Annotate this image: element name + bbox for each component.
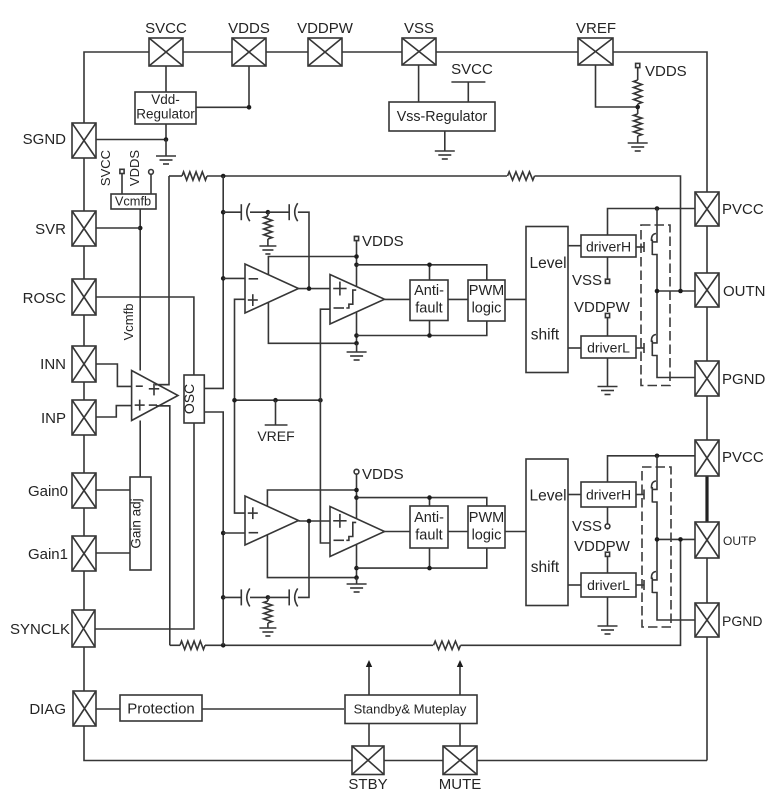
svg-text:SVCC: SVCC <box>451 61 493 78</box>
wire ch2 rail mid <box>205 644 433 646</box>
wire ch1 rail left <box>169 175 182 177</box>
pin OUTN <box>695 273 719 307</box>
pin SVR <box>72 211 96 246</box>
block Gain adj U4 <box>130 477 151 570</box>
wire ch1 antifault top stub <box>429 265 431 280</box>
wire ch1 integrator out <box>299 288 331 290</box>
wire driverH2 gate lead <box>636 494 644 496</box>
wire DIAG bottom rail <box>84 726 352 761</box>
wire Gain1 to Gain adj <box>96 552 130 554</box>
wire ch1 plus input <box>235 299 246 513</box>
block Protection U21 <box>120 695 202 721</box>
resistor ch2 cap mid <box>264 601 272 623</box>
svg-text:INN: INN <box>40 356 66 373</box>
svg-text:SYNCLK: SYNCLK <box>10 621 70 638</box>
ground driverL1 <box>598 387 618 395</box>
wire ch2 gnd stem <box>356 578 358 584</box>
wire ch1 node down <box>222 176 224 278</box>
junction ch1 drain node <box>655 206 660 211</box>
wire Gain0-Gain1 <box>83 508 85 536</box>
wire VREF tap bar <box>265 424 288 426</box>
junction ch1 out node <box>307 286 312 291</box>
wire Protection to Standby <box>202 708 344 710</box>
transistor ch1 high-side <box>644 209 657 292</box>
svg-text:STBY: STBY <box>348 776 387 793</box>
block Anti-fault ch2 U16 <box>410 506 448 548</box>
mosfet body ch1 dashed box <box>641 225 670 386</box>
wire ROSC to OSC <box>96 297 194 375</box>
svg-text:Vcmfb: Vcmfb <box>121 304 136 341</box>
pin VDDPW <box>308 38 342 66</box>
wire PVCC1-OUTN <box>706 226 708 273</box>
wire MUTE to right column <box>477 760 707 762</box>
svg-text:PWM: PWM <box>469 510 504 526</box>
pin SVCC <box>149 38 183 66</box>
wire level1 to driverH1 <box>568 245 581 247</box>
block Standby Muteplay U22 <box>345 695 477 724</box>
junction ch1 vdd b <box>354 263 359 268</box>
junction ch1 antifault top <box>427 263 432 268</box>
junction divider node <box>635 105 640 110</box>
svg-text:VDDS: VDDS <box>645 63 687 80</box>
ground ch1 comparator <box>347 352 367 360</box>
wire SGND-SVR <box>83 158 85 211</box>
pin SGND <box>72 123 96 158</box>
svg-text:Level: Level <box>529 255 566 272</box>
arrow standby up left <box>366 660 372 695</box>
arrow standby up right <box>457 660 463 695</box>
svg-text:VREF: VREF <box>257 428 294 444</box>
wire VDDS to R1 <box>637 68 639 80</box>
block PWM logic ch2 U17 <box>468 506 505 548</box>
wire VDDPW to driverL2 <box>607 557 609 573</box>
wire ch1 antifault-pwm <box>448 298 468 300</box>
wire driverH1 VSS stub <box>607 257 609 279</box>
junction OUTP b <box>678 537 683 542</box>
wire node to R2 <box>637 110 639 114</box>
junction ch2 vdd b <box>354 495 359 500</box>
svg-text:Protection: Protection <box>127 701 195 718</box>
svg-text:OSC: OSC <box>181 384 197 414</box>
wire PGND2 to bottom rail <box>706 637 708 761</box>
pin SYNCLK <box>72 610 95 647</box>
wire ch1 rail right to OUTN <box>535 176 681 291</box>
pin PVCC ch1 <box>695 192 719 226</box>
wire OUTN rail <box>657 290 695 292</box>
op-amp ch2 integrator U9 <box>245 496 299 545</box>
svg-text:Regulator: Regulator <box>136 107 195 122</box>
wire Standby to MUTE <box>459 724 461 747</box>
svg-text:SGND: SGND <box>23 131 67 148</box>
terminal VDDPW ch1 <box>605 313 609 317</box>
svg-text:SVCC: SVCC <box>98 150 113 186</box>
svg-text:logic: logic <box>472 301 502 317</box>
junction VDDS-VddReg corner <box>247 105 252 110</box>
block driverH ch1 U14 <box>581 235 636 257</box>
wire ground stem VddReg <box>165 140 167 157</box>
junction ch2 rail node <box>221 643 226 648</box>
pin DIAG <box>73 691 96 726</box>
svg-text:VDDPW: VDDPW <box>574 299 631 316</box>
ground Vdd-Regulator <box>156 156 176 164</box>
wire OSC out upper <box>204 278 223 388</box>
svg-text:PVCC: PVCC <box>722 449 764 466</box>
wire ch1 antifault btm stub <box>429 320 431 336</box>
svg-text:VDDPW: VDDPW <box>297 20 354 37</box>
wire ch1 comparator minus <box>320 309 330 400</box>
junction SGND node <box>164 137 169 142</box>
block driverL ch2 U20 <box>581 573 636 597</box>
block OSC U5 <box>184 375 204 423</box>
svg-text:PWM: PWM <box>469 283 504 299</box>
wire VSS to VREF <box>436 51 578 53</box>
wire DIAG to Protection <box>96 708 120 710</box>
wire VDDS ch1 stem <box>356 241 358 343</box>
wire Vss-Regulator ground stem <box>444 131 446 151</box>
junction ch2 integrator input <box>221 531 226 536</box>
wire ch2 bottom logic rail <box>357 548 487 568</box>
wire ch1 comparator out <box>385 298 411 300</box>
resistor ch1 feedback <box>508 172 535 180</box>
wire ch2 antifault top stub <box>429 498 431 506</box>
svg-text:VSS: VSS <box>572 518 602 535</box>
wire ch2 antifault-pwm <box>448 531 468 533</box>
wire OUTP rail <box>657 538 695 540</box>
pin Gain0 <box>72 473 96 508</box>
wire ch1 cap mid resistor btm <box>267 239 269 246</box>
wire SVCC to VDDS <box>183 51 232 53</box>
svg-text:VDDS: VDDS <box>228 20 270 37</box>
wire Vcmfb down to input amp <box>139 209 141 371</box>
resistor divider lower <box>634 114 642 136</box>
svg-text:VDDS: VDDS <box>362 466 404 483</box>
pin PVCC ch2 <box>695 440 719 476</box>
block Vcmfb U3 <box>111 194 156 209</box>
wire ch1 rail mid <box>207 175 507 177</box>
terminal VDDS Vcmfb <box>149 170 154 175</box>
wire VDDS term to Vcmfb <box>150 174 152 194</box>
junction ch2 antifault btm <box>427 566 432 571</box>
pin PGND ch2 <box>695 603 719 637</box>
svg-text:fault: fault <box>415 528 442 544</box>
pin ROSC <box>72 279 96 315</box>
svg-text:Gain0: Gain0 <box>28 483 68 500</box>
wire level2 to driverH2 <box>568 494 581 496</box>
junction ch2 gnd b <box>354 575 359 580</box>
wire top rail SVCC left to SGND corner <box>84 52 149 123</box>
wire driverL2 gate lead <box>636 584 644 586</box>
wire ch2 cap chain a <box>223 596 241 598</box>
junction ch1 vdd a <box>354 254 359 259</box>
wire INP to amp <box>96 406 132 417</box>
wire driverL1 gnd stem <box>607 358 609 387</box>
block Vss-Regulator U2 <box>389 102 495 131</box>
wire ch1 cap mid resistor top <box>267 212 269 216</box>
wire ch2 cap chain d <box>298 521 309 597</box>
junction ch1 cap tap <box>221 210 226 215</box>
svg-text:MUTE: MUTE <box>439 776 482 793</box>
comparator ch2 U10 <box>330 507 385 557</box>
wire OUTN-PGND1 <box>706 307 708 361</box>
transistor ch2 high-side <box>644 456 657 540</box>
wire PGND1-PVCC2 <box>706 396 708 440</box>
op-amp ch1 integrator U7 <box>245 264 299 313</box>
wire ch2 comparator minus <box>320 400 330 543</box>
junction VREF rail right <box>318 398 323 403</box>
capacitor ch1 fb right <box>289 203 298 221</box>
junction ch1 cap mid <box>266 210 271 215</box>
ground ch1 cap mid <box>259 246 276 254</box>
op-amp input stage U6 <box>132 371 178 421</box>
comparator ch1 U8 <box>330 275 385 325</box>
wire ch1 bottom logic rail <box>357 321 487 336</box>
wire Gain1-SYNCLK <box>83 571 85 610</box>
terminal VSS ch2 <box>605 524 610 529</box>
transistor ch2 low-side <box>644 539 695 620</box>
pin STBY <box>352 746 384 775</box>
wire ch1 top logic rail <box>357 265 487 280</box>
svg-text:Vdd-: Vdd- <box>151 92 180 107</box>
wire SVR-ROSC <box>83 246 85 279</box>
wire SYNCLK-DIAG <box>83 647 85 691</box>
svg-text:SVR: SVR <box>35 221 66 238</box>
wire driverL2 gnd stem <box>607 597 609 626</box>
svg-text:driverL: driverL <box>587 340 630 356</box>
wire ch2 pwm-level <box>505 531 526 533</box>
wire driverH1 top to PVCC <box>608 209 696 236</box>
wire ch1 gnd stem <box>356 343 358 352</box>
junction SVR-Vcmfb <box>138 226 143 231</box>
wire PVCC2-OUTP thick <box>706 476 708 522</box>
wire SVCC tap stem <box>467 82 469 102</box>
svg-text:INP: INP <box>41 410 66 427</box>
svg-text:logic: logic <box>472 528 502 544</box>
pin INN <box>72 346 96 382</box>
svg-text:SVCC: SVCC <box>145 20 187 37</box>
junction ch1 integrator input <box>221 276 226 281</box>
capacitor ch2 fb left <box>241 588 250 606</box>
wire ch2 cap mid resistor top <box>267 597 269 601</box>
wire ch2 comparator out <box>385 531 411 533</box>
wire ch2 integrator out <box>299 520 331 522</box>
svg-text:Vcmfb: Vcmfb <box>115 194 151 209</box>
svg-text:PGND: PGND <box>722 371 766 388</box>
wire level2 to driverL2 <box>568 584 581 586</box>
svg-text:OUTN: OUTN <box>723 283 766 300</box>
pin MUTE <box>443 746 477 775</box>
pin OUTP <box>695 522 719 558</box>
resistor ch1 input <box>182 172 207 180</box>
junction ch2 gnd a <box>354 566 359 571</box>
pin VSS <box>402 38 436 65</box>
junction ch1 gnd a <box>354 333 359 338</box>
svg-text:Vss-Regulator: Vss-Regulator <box>397 109 488 125</box>
ground ch2 cap mid <box>259 628 276 636</box>
terminal VSS ch1 <box>605 279 609 283</box>
wire SVR to Vcmfb line <box>96 227 140 229</box>
wire INN to amp <box>96 364 132 386</box>
wire SVCC term to Vcmfb <box>121 174 123 194</box>
wire VREF to right column <box>613 52 707 192</box>
svg-text:OUTP: OUTP <box>723 534 756 548</box>
wire ch2 cap chain c <box>268 596 289 598</box>
junction ch1 antifault btm <box>427 333 432 338</box>
terminal VDDPW ch2 <box>605 552 609 556</box>
wire INN-INP <box>83 382 85 400</box>
svg-text:Standby& Muteplay: Standby& Muteplay <box>354 702 467 717</box>
svg-text:Gain adj: Gain adj <box>129 498 144 548</box>
wire STBY to MUTE <box>384 760 443 762</box>
mosfet body ch2 dashed box <box>642 467 671 627</box>
svg-text:VSS: VSS <box>404 20 434 37</box>
wire VREF pin to divider <box>596 65 638 107</box>
junction ch2 antifault top <box>427 495 432 500</box>
ground ch2 comparator <box>347 584 367 592</box>
wire ch2 rail left <box>170 644 180 646</box>
wire ch1 minus input <box>223 277 245 279</box>
ground divider <box>628 143 648 151</box>
wire ch1 cap chain a <box>223 211 241 213</box>
wire VDDPW to VSS <box>342 51 402 53</box>
ground Vss-Regulator <box>435 151 455 159</box>
terminal VDDS top-right <box>636 63 640 67</box>
terminal VDDS ch1 <box>354 236 358 240</box>
wire ch2 node up <box>222 533 224 645</box>
junction ch2 vdd a <box>354 488 359 493</box>
pin VREF <box>578 38 613 65</box>
wire ROSC-INN <box>83 315 85 346</box>
wire OSC to SYNCLK <box>95 423 194 629</box>
wire ch1 cap chain b <box>250 211 268 213</box>
resistor divider upper <box>634 80 642 104</box>
block Level shift ch1 U13 <box>526 227 568 373</box>
svg-text:PGND: PGND <box>722 613 762 629</box>
wire VREF tap stem <box>275 400 277 425</box>
block Anti-fault ch1 U11 <box>410 280 448 321</box>
wire ch2 cap chain b <box>250 596 268 598</box>
wire driverH2 VSS stub <box>607 507 609 524</box>
capacitor ch1 fb left <box>241 203 250 221</box>
wire INP-Gain0 <box>83 435 85 473</box>
wire VDDS ch2 stem <box>356 474 358 578</box>
svg-text:driverH: driverH <box>586 487 631 503</box>
capacitor ch2 fb right <box>289 588 298 606</box>
svg-text:VSS: VSS <box>572 272 602 289</box>
wire ch1 supply left <box>268 257 356 344</box>
wire amp out plus up <box>155 176 169 385</box>
svg-text:VDDPW: VDDPW <box>574 538 631 555</box>
wire ch1 cap chain c <box>268 211 289 213</box>
pin Gain1 <box>72 536 96 571</box>
wire amp out minus down <box>156 406 170 646</box>
svg-text:shift: shift <box>531 327 560 344</box>
wire SGND to ground node <box>96 139 166 141</box>
wire SVCC pin to Vdd-Regulator <box>165 66 167 92</box>
junction OUTN a <box>655 289 660 294</box>
pin VDDS <box>232 38 266 66</box>
wire VDDPW to driverL1 <box>607 318 609 336</box>
wire OSC out lower <box>204 412 223 533</box>
junction ch2 drain node <box>655 454 660 459</box>
resistor ch2 feedback <box>434 641 461 649</box>
wire ch2 cap mid resistor btm <box>267 623 269 628</box>
junction ch2 cap tap <box>221 595 226 600</box>
terminal VDDS ch2 <box>354 469 359 474</box>
junction ch2 out node <box>307 519 312 524</box>
svg-text:Anti-: Anti- <box>414 510 444 526</box>
resistor ch1 cap mid <box>264 216 272 239</box>
wire level1 to driverL1 <box>568 347 581 349</box>
junction VREF rail left <box>232 398 237 403</box>
junction OUTN b <box>678 289 683 294</box>
junction VREF tap <box>273 398 278 403</box>
block Level shift ch2 U18 <box>526 459 568 606</box>
block driverL ch1 U15 <box>581 336 636 358</box>
wire R1 to node <box>637 104 639 110</box>
svg-text:VDDS: VDDS <box>362 233 404 250</box>
block Vdd-Regulator U1 <box>135 92 196 124</box>
svg-text:fault: fault <box>415 301 442 317</box>
wire ch1 cap chain d <box>298 212 309 288</box>
svg-text:Anti-: Anti- <box>414 283 444 299</box>
wire ch1 pwm-level <box>505 298 526 300</box>
svg-text:VDDS: VDDS <box>127 150 142 186</box>
svg-text:Level: Level <box>529 488 566 505</box>
wire Gain0 to Gain adj <box>96 489 130 491</box>
svg-text:DIAG: DIAG <box>29 701 66 718</box>
svg-text:driverL: driverL <box>587 577 630 593</box>
wire driverL1 gate lead <box>636 347 644 349</box>
wire ch2 rail right to OUTP <box>461 539 681 645</box>
wire driverH2 top to PVCC <box>608 456 696 482</box>
svg-text:VREF: VREF <box>576 20 616 37</box>
wire ch2 supply left <box>267 490 356 578</box>
svg-text:shift: shift <box>531 559 560 576</box>
svg-text:driverH: driverH <box>586 239 631 255</box>
svg-text:Gain1: Gain1 <box>28 546 68 563</box>
wire VDDS pin to Vdd-Regulator <box>196 66 249 107</box>
wire ch2 top logic rail <box>357 498 487 506</box>
block driverH ch2 U19 <box>581 482 636 507</box>
transistor ch1 low-side <box>644 291 695 378</box>
wire input amp to Gain adj <box>139 421 141 478</box>
junction ch1 rail node <box>221 174 226 179</box>
svg-text:PVCC: PVCC <box>722 201 764 218</box>
pin INP <box>72 400 96 435</box>
wire VSS pin to Vss-Regulator <box>418 65 420 102</box>
pin PGND ch1 <box>695 361 719 396</box>
resistor ch2 input <box>180 641 205 649</box>
wire OUTP-PGND2 <box>706 558 708 603</box>
wire R2 to ground <box>637 136 639 143</box>
junction ch1 gnd b <box>354 341 359 346</box>
wire VDDS to VDDPW <box>266 51 308 53</box>
block PWM logic ch1 U12 <box>468 280 505 321</box>
wire ch2 minus input <box>223 532 245 534</box>
wire SVCC tap bar <box>451 81 485 83</box>
wire ch2 antifault btm stub <box>429 548 431 568</box>
junction ch2 cap mid <box>266 595 271 600</box>
junction OUTP a <box>655 537 660 542</box>
terminal SVCC Vcmfb <box>120 169 124 173</box>
ground driverL2 <box>598 626 618 634</box>
wire VREF rail <box>235 399 321 401</box>
wire Standby to STBY <box>368 724 370 747</box>
svg-text:ROSC: ROSC <box>23 290 67 307</box>
wire Vdd-Regulator to SGND node <box>165 124 167 140</box>
wire driverH1 gate lead <box>636 246 644 248</box>
